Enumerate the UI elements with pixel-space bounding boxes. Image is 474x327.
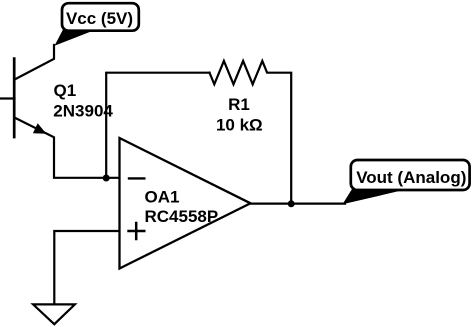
svg-text:2N3904: 2N3904	[53, 102, 113, 121]
svg-text:R1: R1	[228, 95, 250, 114]
svg-text:Q1: Q1	[54, 81, 77, 100]
svg-text:RC4558P: RC4558P	[145, 207, 219, 226]
svg-text:Vout (Analog): Vout (Analog)	[356, 168, 466, 187]
svg-text:10 kΩ: 10 kΩ	[216, 116, 263, 135]
svg-text:OA1: OA1	[145, 188, 180, 207]
svg-text:Vcc (5V): Vcc (5V)	[66, 9, 133, 28]
